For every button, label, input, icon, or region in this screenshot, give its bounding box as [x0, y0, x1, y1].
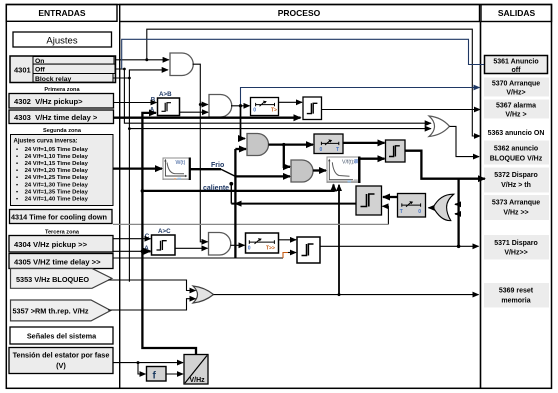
- svg-text:Segunda zona: Segunda zona: [43, 128, 82, 134]
- svg-text:• 24 V/f=1,15 Time Delay: • 24 V/f=1,15 Time Delay: [16, 161, 89, 167]
- svg-text:Block relay: Block relay: [35, 76, 71, 83]
- svg-text:Primera zona: Primera zona: [44, 87, 80, 93]
- svg-text:4304 V/Hz pickup >>: 4304 V/Hz pickup >>: [14, 240, 88, 249]
- svg-text:Ajustes: Ajustes: [46, 36, 77, 47]
- svg-text:• 24 V/f=1,30 Time Delay: • 24 V/f=1,30 Time Delay: [16, 182, 89, 188]
- svg-text:5371 Disparo: 5371 Disparo: [494, 240, 538, 247]
- svg-text:5372 Disparo: 5372 Disparo: [494, 172, 538, 179]
- svg-text:ENTRADAS: ENTRADAS: [38, 8, 86, 18]
- svg-text:(V): (V): [56, 361, 66, 370]
- svg-text:Ajustes curva inversa:: Ajustes curva inversa:: [14, 139, 78, 145]
- svg-text:T>: T>: [271, 107, 277, 113]
- svg-text:5373 Arranque: 5373 Arranque: [492, 200, 540, 207]
- svg-text:5357 >RM th.rep. V/Hz: 5357 >RM th.rep. V/Hz: [13, 307, 89, 316]
- svg-text:Tensión del estator por fase: Tensión del estator por fase: [13, 351, 110, 360]
- svg-text:A>C: A>C: [158, 228, 171, 235]
- svg-text:caliente: caliente: [203, 185, 229, 192]
- svg-text:T>>: T>>: [266, 245, 275, 251]
- svg-text:• 24 V/f=1,25 Time Delay: • 24 V/f=1,25 Time Delay: [16, 175, 89, 181]
- svg-text:• 24 V/f=1,20 Time Delay: • 24 V/f=1,20 Time Delay: [16, 168, 89, 174]
- svg-text:4302 V/Hz pickup>: 4302 V/Hz pickup>: [14, 97, 83, 106]
- svg-text:T: T: [336, 147, 339, 153]
- svg-text:• 24 V/f=1,35 Time Delay: • 24 V/f=1,35 Time Delay: [16, 189, 89, 195]
- svg-text:4303 V/Hz time delay >: 4303 V/Hz time delay >: [14, 113, 98, 122]
- svg-text:V/Hz: V/Hz: [190, 377, 206, 384]
- svg-text:V/Hz >>: V/Hz >>: [503, 210, 528, 217]
- svg-text:Señales del sistema: Señales del sistema: [27, 332, 97, 341]
- svg-text:5367 alarma: 5367 alarma: [496, 103, 536, 110]
- svg-text:Frio: Frio: [211, 162, 224, 169]
- svg-text:5361 Anuncio: 5361 Anuncio: [493, 59, 538, 66]
- svg-text:BLOQUEO V/Hz: BLOQUEO V/Hz: [490, 156, 543, 163]
- svg-text:0: 0: [320, 147, 323, 153]
- svg-text:V/Hz > th: V/Hz > th: [501, 182, 531, 189]
- svg-text:5353 V/Hz BLOQUEO: 5353 V/Hz BLOQUEO: [16, 275, 89, 284]
- svg-text:5362 anuncio: 5362 anuncio: [494, 146, 538, 153]
- svg-text:V/Hz >: V/Hz >: [505, 112, 526, 119]
- svg-text:5369 reset: 5369 reset: [499, 288, 534, 295]
- svg-text:V/Hz>: V/Hz>: [506, 90, 525, 97]
- svg-text:5363 anuncio ON: 5363 anuncio ON: [488, 130, 545, 137]
- svg-text:• 24 V/f=1,10 Time Delay: • 24 V/f=1,10 Time Delay: [16, 154, 89, 160]
- svg-text:V/Hz>>: V/Hz>>: [504, 250, 527, 257]
- svg-text:0: 0: [418, 209, 421, 215]
- svg-text:memoria: memoria: [501, 297, 530, 304]
- svg-text:4314 Time for cooling down: 4314 Time for cooling down: [11, 213, 107, 222]
- svg-text:V/f(t)x: V/f(t)x: [342, 160, 356, 166]
- svg-text:• 24 V/f=1,05 Time Delay: • 24 V/f=1,05 Time Delay: [16, 147, 89, 153]
- svg-text:• 24 V/f=1,40 Time Delay: • 24 V/f=1,40 Time Delay: [16, 197, 89, 203]
- svg-text:W(t): W(t): [176, 160, 186, 166]
- svg-text:On: On: [35, 58, 44, 65]
- svg-text:A>B: A>B: [159, 91, 172, 98]
- svg-text:off: off: [512, 67, 522, 74]
- svg-text:4301: 4301: [14, 66, 31, 75]
- svg-text:Tercera zona: Tercera zona: [45, 230, 80, 236]
- svg-text:5370 Arranque: 5370 Arranque: [492, 81, 540, 88]
- svg-text:0: 0: [253, 108, 256, 114]
- svg-text:SALIDAS: SALIDAS: [498, 8, 536, 18]
- svg-text:PROCESO: PROCESO: [278, 8, 321, 18]
- svg-text:4305 V/HZ time delay >>: 4305 V/HZ time delay >>: [14, 257, 101, 266]
- svg-text:T: T: [400, 209, 403, 215]
- svg-text:Off: Off: [35, 67, 46, 74]
- svg-text:0: 0: [248, 245, 251, 251]
